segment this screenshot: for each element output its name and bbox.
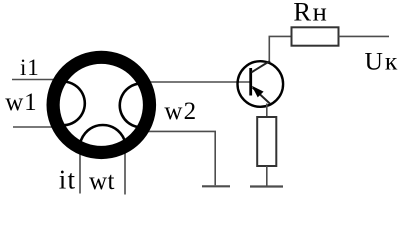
resistor Rn rect — [292, 27, 339, 45]
wire Rn right output — [339, 35, 390, 37]
transistor VT circle — [237, 61, 283, 107]
wire w1 input — [13, 126, 62, 128]
svg-text:w1: w1 — [5, 89, 37, 116]
emitter arrow (PNP) — [252, 86, 264, 98]
collector wire up to Rn — [269, 36, 291, 61]
winding arc left (w1) — [54, 82, 85, 126]
wire it (left bottom vertical) — [79, 146, 81, 194]
transistor base bar — [249, 68, 252, 96]
wire base: core w2 winding to transistor base — [138, 81, 251, 83]
emitter line — [253, 88, 270, 104]
ground bar w2 — [202, 185, 230, 187]
winding arc right (w2) — [120, 83, 150, 127]
svg-text:Uк: Uк — [365, 46, 398, 75]
magnetic core ring — [53, 57, 149, 152]
wire resistor to ground — [266, 166, 268, 186]
svg-text:i1: i1 — [20, 55, 40, 80]
wire w2 bottom to ground — [138, 131, 215, 185]
collector line — [252, 61, 271, 72]
svg-text:wt: wt — [89, 168, 115, 195]
wire wt (right bottom vertical) — [124, 146, 126, 195]
wire i1 input — [12, 79, 62, 81]
emitter wire down — [266, 104, 268, 118]
svg-text:Rн: Rн — [293, 0, 326, 27]
svg-text:it: it — [59, 164, 76, 194]
winding arc bottom (wt) — [80, 125, 126, 152]
svg-text:w2: w2 — [164, 98, 197, 125]
ground bar emitter — [250, 185, 283, 187]
emitter resistor rect — [257, 117, 276, 166]
